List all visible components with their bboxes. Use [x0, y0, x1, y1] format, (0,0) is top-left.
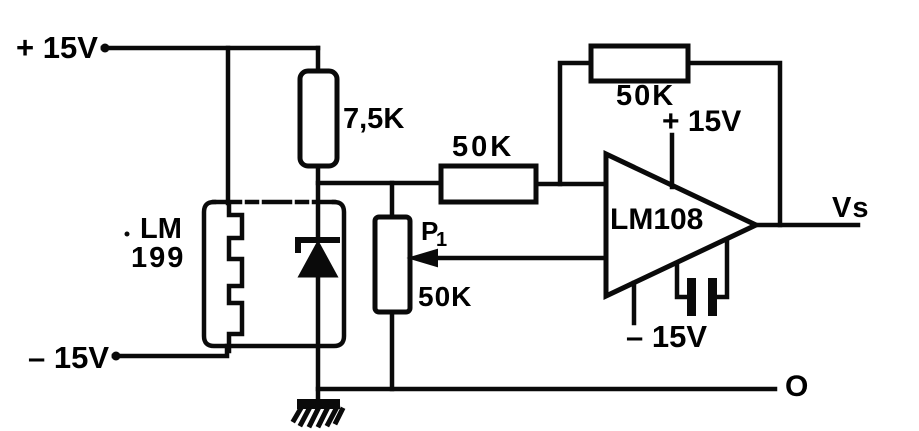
wire comp cap left pin: [677, 263, 687, 297]
svg-text:O: O: [785, 370, 808, 403]
svg-text:50K: 50K: [418, 281, 472, 312]
potentiometer P1 body: [375, 217, 410, 312]
wire output to Vs: [756, 223, 858, 228]
wire junction down to LM199 heater: [226, 48, 231, 203]
wire top into R1: [316, 48, 321, 71]
resistor R3 50K feedback body: [591, 46, 688, 81]
svg-text:7,5K: 7,5K: [343, 103, 404, 135]
zener diode D1 anode triangle: [300, 243, 336, 276]
zener diode D1 cathode bar: [298, 240, 337, 250]
wire down to P1 top: [390, 183, 395, 217]
heater element castellated line: [229, 203, 242, 351]
ground symbol: [294, 399, 342, 425]
capacitor C1 right plate: [708, 278, 717, 316]
LM199 package box (dashed top): [214, 200, 334, 205]
capacitor C1 left plate: [687, 278, 696, 316]
svg-text:+ 15V: + 15V: [16, 30, 98, 65]
wire diode to ground rail: [316, 276, 321, 401]
svg-text:Vs: Vs: [832, 192, 869, 224]
wire P1 wiper to op-amp input: [436, 256, 606, 261]
wire comp cap right pin: [717, 240, 727, 297]
svg-text:LM108: LM108: [610, 203, 703, 236]
resistor R1 7,5K body: [300, 71, 337, 166]
svg-text:199: 199: [131, 242, 185, 274]
resistor R2 50K body: [441, 166, 536, 202]
LM199 package box sides and bottom: [204, 202, 344, 346]
wire feedback left vertical: [560, 63, 591, 184]
wire V- pin: [632, 283, 637, 323]
svg-text:1: 1: [436, 229, 447, 251]
wire feedback right to output: [688, 63, 780, 225]
op-amp U1 LM108 triangle: [606, 154, 756, 296]
wire main horizontal node to R2: [318, 181, 441, 186]
wire -15V rail: [114, 346, 227, 356]
svg-text:– 15V: – 15V: [626, 319, 707, 354]
svg-text:– 15V: – 15V: [28, 340, 109, 375]
wire +15V rail top: [103, 46, 318, 51]
svg-text:50K: 50K: [452, 131, 514, 163]
wire R1 bottom to node: [316, 166, 321, 236]
wire R2 to op-amp: [536, 182, 606, 187]
wire bottom rail to O: [318, 387, 775, 392]
wire P1 bottom: [390, 312, 395, 389]
wire V+ pin: [670, 135, 675, 187]
stray scan dot: [125, 232, 130, 237]
wiper arrowhead: [410, 250, 437, 266]
svg-text:LM: LM: [140, 213, 182, 245]
